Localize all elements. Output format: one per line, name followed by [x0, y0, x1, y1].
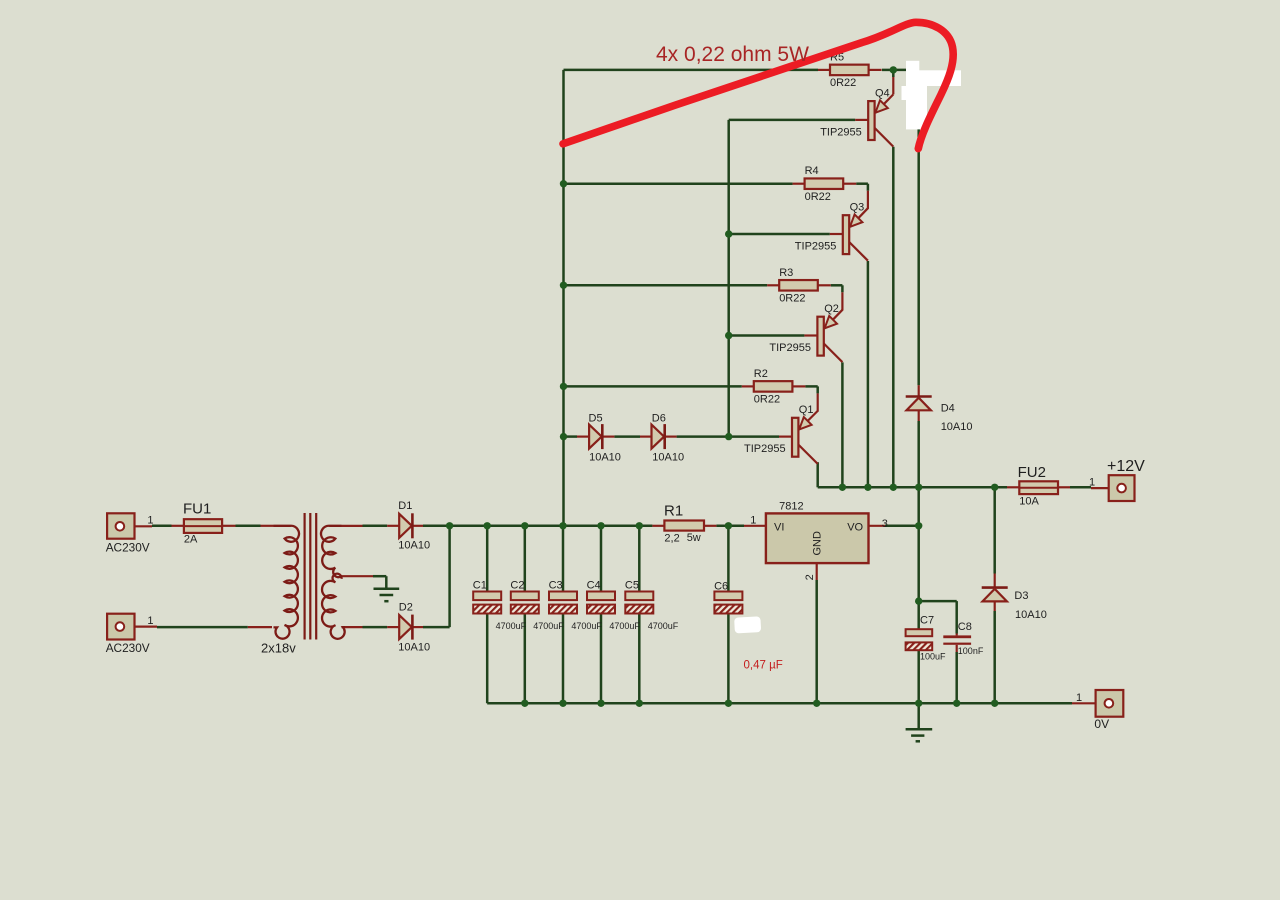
svg-text:AC230V: AC230V — [106, 641, 150, 655]
svg-text:4700uF: 4700uF — [533, 621, 564, 631]
svg-text:AC230V: AC230V — [106, 541, 150, 555]
svg-text:2: 2 — [804, 574, 816, 580]
svg-text:TIP2955: TIP2955 — [820, 127, 862, 139]
svg-text:0R22: 0R22 — [754, 394, 780, 406]
svg-text:Q2: Q2 — [824, 303, 839, 315]
svg-text:C5: C5 — [625, 579, 639, 591]
svg-text:R1: R1 — [664, 502, 683, 519]
svg-text:D6: D6 — [652, 413, 666, 425]
svg-text:D2: D2 — [399, 601, 413, 613]
svg-text:+12V: +12V — [1107, 458, 1145, 475]
svg-text:C7: C7 — [920, 614, 934, 626]
svg-text:Q4: Q4 — [875, 87, 890, 99]
svg-text:0R22: 0R22 — [805, 191, 831, 203]
svg-text:FU2: FU2 — [1018, 464, 1046, 481]
svg-text:D5: D5 — [589, 413, 603, 425]
svg-text:4700uF: 4700uF — [496, 621, 527, 631]
svg-text:4700uF: 4700uF — [609, 621, 640, 631]
svg-text:C8: C8 — [958, 621, 972, 633]
svg-text:10A10: 10A10 — [941, 421, 973, 433]
svg-text:D3: D3 — [1014, 590, 1028, 602]
svg-text:C6: C6 — [714, 581, 728, 593]
svg-text:VO: VO — [847, 522, 863, 534]
svg-text:VI: VI — [774, 522, 784, 534]
svg-text:D4: D4 — [941, 403, 955, 415]
svg-text:2x18v: 2x18v — [261, 641, 296, 656]
svg-text:10A10: 10A10 — [398, 540, 430, 552]
svg-text:TIP2955: TIP2955 — [769, 342, 811, 354]
svg-text:GND: GND — [812, 531, 824, 556]
svg-text:R3: R3 — [779, 267, 793, 279]
svg-text:0,47 µF: 0,47 µF — [744, 660, 783, 672]
svg-text:1: 1 — [1076, 692, 1082, 704]
svg-text:100uF: 100uF — [920, 652, 946, 662]
svg-text:C1: C1 — [473, 579, 487, 591]
svg-text:4700uF: 4700uF — [571, 621, 602, 631]
svg-text:0R22: 0R22 — [779, 293, 805, 305]
svg-text:10A10: 10A10 — [589, 452, 621, 464]
svg-text:C4: C4 — [587, 579, 601, 591]
svg-text:C3: C3 — [549, 579, 563, 591]
svg-text:R2: R2 — [754, 368, 768, 380]
svg-text:7812: 7812 — [779, 500, 803, 512]
svg-text:3: 3 — [882, 518, 888, 530]
svg-text:R4: R4 — [805, 165, 819, 177]
svg-text:TIP2955: TIP2955 — [744, 443, 786, 455]
svg-text:1: 1 — [147, 515, 153, 527]
svg-text:10A10: 10A10 — [652, 452, 684, 464]
svg-text:C2: C2 — [510, 579, 524, 591]
svg-text:10A: 10A — [1019, 496, 1039, 508]
svg-text:100nF: 100nF — [958, 646, 984, 656]
svg-text:4700uF: 4700uF — [648, 621, 679, 631]
svg-text:4x 0,22 ohm 5W: 4x 0,22 ohm 5W — [656, 43, 809, 66]
svg-text:0R22: 0R22 — [830, 77, 856, 89]
svg-text:TIP2955: TIP2955 — [795, 241, 837, 253]
svg-text:Q1: Q1 — [799, 404, 814, 416]
svg-text:1: 1 — [147, 615, 153, 627]
svg-text:FU1: FU1 — [183, 500, 211, 517]
svg-text:0V: 0V — [1094, 717, 1109, 731]
svg-text:5w: 5w — [687, 532, 701, 544]
svg-text:10A10: 10A10 — [1015, 609, 1047, 621]
svg-text:10A10: 10A10 — [398, 641, 430, 653]
svg-text:D1: D1 — [398, 500, 412, 512]
svg-text:Q3: Q3 — [850, 201, 865, 213]
svg-text:2A: 2A — [184, 534, 198, 546]
svg-text:1: 1 — [750, 514, 756, 526]
svg-text:2,2: 2,2 — [664, 533, 679, 545]
svg-text:1: 1 — [1089, 477, 1095, 489]
